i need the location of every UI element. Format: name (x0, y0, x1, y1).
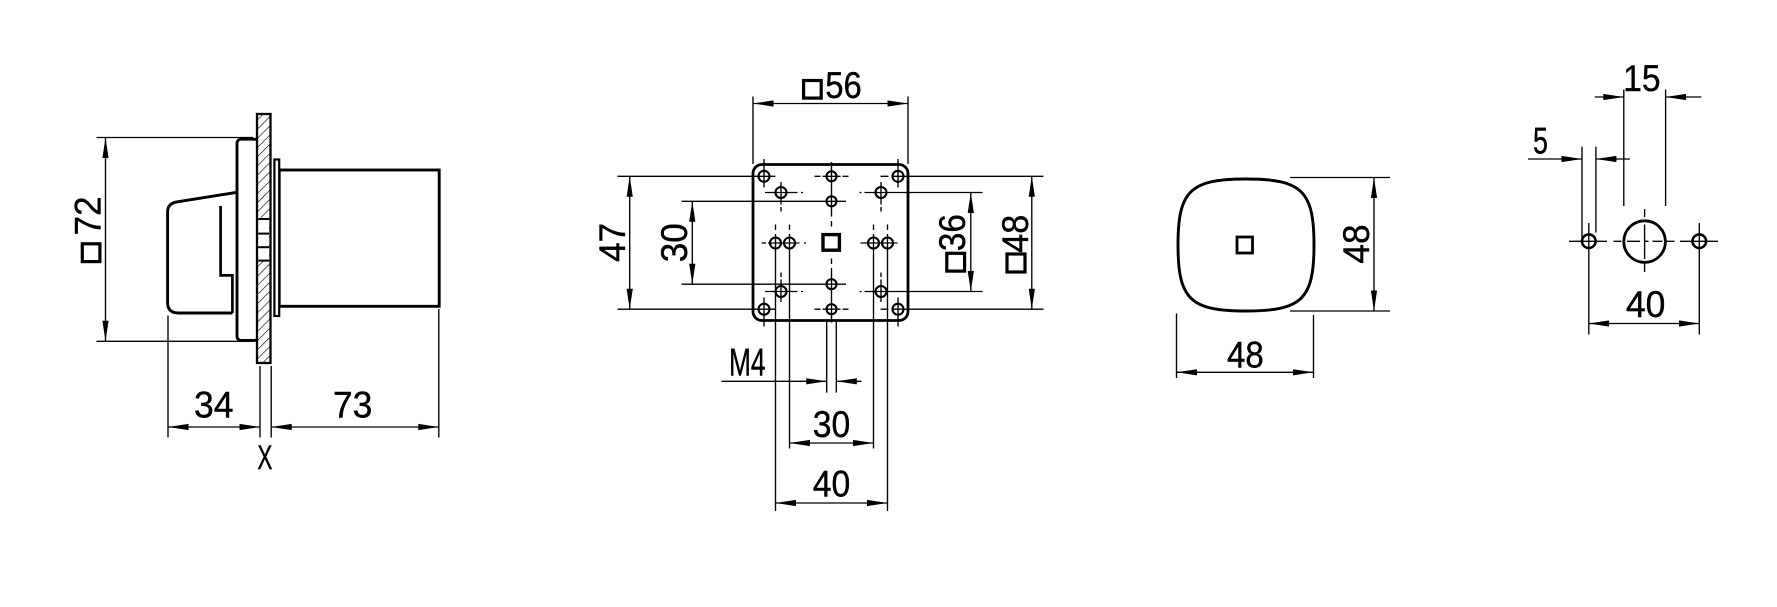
dim 73 arrows (271, 424, 292, 430)
rear flange plate (274, 160, 279, 317)
center lines row top (618, 175, 1044, 177)
center lines row bottom (618, 308, 1044, 310)
label square48 (1007, 254, 1025, 272)
svg-text:72: 72 (67, 196, 108, 235)
svg-text:47: 47 (592, 223, 633, 262)
clamp tabs on panel (258, 218, 269, 262)
corner hole BR (893, 304, 904, 315)
dim 5 ext lines (1582, 147, 1596, 241)
right small hole (1693, 234, 1707, 248)
dim 5 line (1528, 158, 1630, 160)
inner hole center lines top (765, 192, 983, 194)
dim 73 line (271, 426, 439, 428)
svg-text:48: 48 (995, 215, 1036, 253)
svg-text:M4: M4 (729, 342, 766, 385)
ext line 30 top (682, 200, 847, 202)
dim 15 ext lines (1624, 90, 1666, 207)
dim 48 right ext lines (1290, 178, 1390, 312)
dim 30 bottom line (790, 442, 874, 444)
ext line 30 bottom (682, 283, 847, 285)
dim 40 bottom line (776, 502, 888, 504)
dim 56 ext lines (753, 97, 908, 165)
vertical center line main hole (1644, 209, 1646, 272)
vertical center line small holes (1589, 223, 1700, 335)
main hole (1624, 221, 1666, 263)
label square36 (947, 253, 965, 271)
dim 72 line (105, 138, 107, 342)
dim 48 right line (1373, 178, 1375, 312)
dim 48 line (1031, 176, 1033, 309)
horizontal center line (1569, 240, 1718, 242)
front bezel (237, 139, 259, 340)
middle row vertical lines to bottom dims (776, 225, 888, 512)
svg-text:73: 73 (333, 385, 373, 426)
svg-text:X: X (257, 439, 272, 477)
knob front squircle (1178, 179, 1314, 311)
svg-text:5: 5 (1533, 121, 1548, 162)
dim 15 line (1595, 96, 1702, 98)
corner hole vertical center lines (764, 159, 898, 327)
vertical center line column (831, 162, 833, 323)
corner hole TL (759, 171, 770, 182)
svg-text:48: 48 (1227, 334, 1264, 375)
M4 tangent ext lines (827, 322, 837, 393)
knob inner step (221, 206, 233, 313)
body tube (279, 170, 439, 306)
dim 56 line (753, 103, 908, 105)
dim 34 arrows (168, 424, 189, 430)
svg-text:15: 15 (1623, 58, 1661, 99)
dim 34 line (168, 426, 260, 428)
plate outline (753, 165, 908, 321)
dim 34/73 extension lines (168, 309, 439, 438)
svg-text:56: 56 (825, 65, 862, 106)
svg-text:30: 30 (654, 223, 695, 262)
middle row center line (762, 242, 898, 244)
label square56 (804, 81, 822, 99)
svg-text:40: 40 (813, 463, 851, 504)
corner hole BL (759, 304, 770, 315)
knob outline (168, 192, 237, 313)
dim 72 arrows (102, 138, 108, 159)
dim 47 line (629, 176, 631, 309)
dim 72 extension lines (97, 138, 254, 342)
center square hole (823, 235, 839, 251)
center square hole (1237, 237, 1253, 253)
svg-text:34: 34 (194, 385, 234, 426)
inner holes (776, 187, 787, 198)
dim 48 bottom line (1177, 371, 1314, 373)
label square72 (82, 244, 100, 262)
inner hole vertical center lines (781, 182, 881, 302)
svg-text:48: 48 (1336, 224, 1377, 263)
center column holes (827, 171, 837, 181)
left small hole (1582, 234, 1596, 248)
dim 36 line (970, 193, 972, 292)
inner hole center lines bottom (765, 291, 983, 293)
dim 48 bottom ext lines (1177, 314, 1314, 379)
dim 40 line (1589, 323, 1700, 325)
svg-text:36: 36 (932, 214, 973, 251)
corner hole TR (893, 171, 904, 182)
svg-text:30: 30 (813, 404, 851, 445)
M4 leader line (722, 380, 862, 382)
panel plate hatched (257, 114, 271, 363)
middle row holes (770, 238, 781, 249)
svg-text:40: 40 (1626, 284, 1666, 325)
dim 30 left line (691, 201, 693, 284)
